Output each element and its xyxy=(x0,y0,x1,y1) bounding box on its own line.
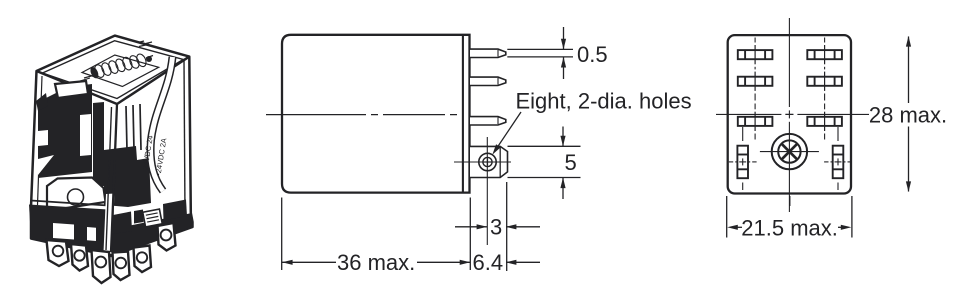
top face front edges xyxy=(37,57,190,104)
pin blade 6 xyxy=(158,223,176,251)
dimension 0.5 xyxy=(507,27,573,79)
center cross xyxy=(785,113,793,115)
svg-text:3: 3 xyxy=(490,215,502,240)
black contact block mass xyxy=(104,146,151,207)
svg-text:5: 5 xyxy=(565,150,577,175)
svg-text:28 max.: 28 max. xyxy=(869,103,947,128)
slot row2 left xyxy=(738,72,773,91)
mechanism chunks above base right xyxy=(113,212,132,235)
front corner white channel xyxy=(104,194,115,255)
center socket circle xyxy=(760,134,819,169)
coil wire arc on right face xyxy=(151,57,173,191)
dimension 36 max. xyxy=(282,260,470,265)
front corner edge lines over base xyxy=(111,160,115,252)
horizontal centerline xyxy=(716,113,781,115)
white wedge bottom-left xyxy=(38,155,54,175)
vertical slot right xyxy=(824,127,852,190)
dimension 6.4 xyxy=(506,260,540,265)
svg-text:36 max.: 36 max. xyxy=(337,250,415,275)
terminal slots: rows xyxy=(738,45,842,131)
pin 3 xyxy=(470,117,506,125)
slot row3 left xyxy=(738,112,773,131)
relay body side view xyxy=(282,35,470,193)
base window 2 xyxy=(87,227,96,241)
front corner edge xyxy=(111,104,117,252)
dimension 28 max. xyxy=(906,36,911,192)
2-dia hole xyxy=(479,153,496,170)
leader to hole xyxy=(492,112,521,155)
base stripe label xyxy=(143,209,163,227)
svg-text:6.4: 6.4 xyxy=(473,250,504,275)
slot row3 right xyxy=(807,112,842,131)
dimension 21.5 max. xyxy=(727,196,852,238)
vertical centerline xyxy=(788,18,790,107)
pin 1 xyxy=(470,49,506,57)
pin blade 4 xyxy=(113,252,130,281)
hole pin blade xyxy=(470,146,508,177)
tiny label text marks xyxy=(138,41,152,47)
bottom view outline xyxy=(728,35,851,193)
base front-right face xyxy=(108,213,192,257)
coil winding drawing on label xyxy=(93,53,148,79)
svg-text:0.5: 0.5 xyxy=(577,42,608,67)
right edge inner line xyxy=(184,60,185,216)
hole crosshair horizontal xyxy=(454,161,511,163)
body flange line xyxy=(462,35,464,193)
slot row2 right xyxy=(807,72,842,91)
white armature plate xyxy=(47,178,106,212)
slot row1 left xyxy=(738,45,773,64)
pin blade 3 xyxy=(92,250,111,283)
white slot in mass xyxy=(80,114,91,156)
pin blade 1 xyxy=(47,240,69,266)
hole center extension vertical xyxy=(486,137,488,245)
pin blade 2 xyxy=(71,244,88,271)
horizontal centerline xyxy=(266,114,462,116)
left edge inner line xyxy=(38,76,43,205)
top label outline xyxy=(82,55,159,87)
white notch left xyxy=(38,130,48,146)
armature black mass xyxy=(38,84,92,178)
pin 2 xyxy=(470,77,506,85)
relay case silhouette xyxy=(31,36,193,256)
extension lines 36/6.4 xyxy=(282,182,507,271)
top face inner rim xyxy=(43,41,184,99)
svg-text:21.5 max.: 21.5 max. xyxy=(741,216,838,241)
case edges xyxy=(38,60,186,252)
armature flag white tip xyxy=(55,81,88,98)
dimension 3 xyxy=(455,224,540,229)
pin blade 5 xyxy=(134,246,152,273)
base window xyxy=(53,223,74,240)
armature left tip xyxy=(36,93,48,111)
black column at front corner xyxy=(93,102,104,187)
column centerline dashes xyxy=(755,38,825,140)
dimension 5 xyxy=(508,127,581,200)
svg-text:Eight, 2-dia. holes: Eight, 2-dia. holes xyxy=(516,89,692,114)
contact springs xyxy=(126,104,141,150)
vertical slot left xyxy=(729,127,757,190)
plate hole xyxy=(68,189,84,205)
case bottom rim line xyxy=(31,201,108,206)
slot row1 right xyxy=(807,45,842,64)
base front-left face xyxy=(29,205,108,257)
